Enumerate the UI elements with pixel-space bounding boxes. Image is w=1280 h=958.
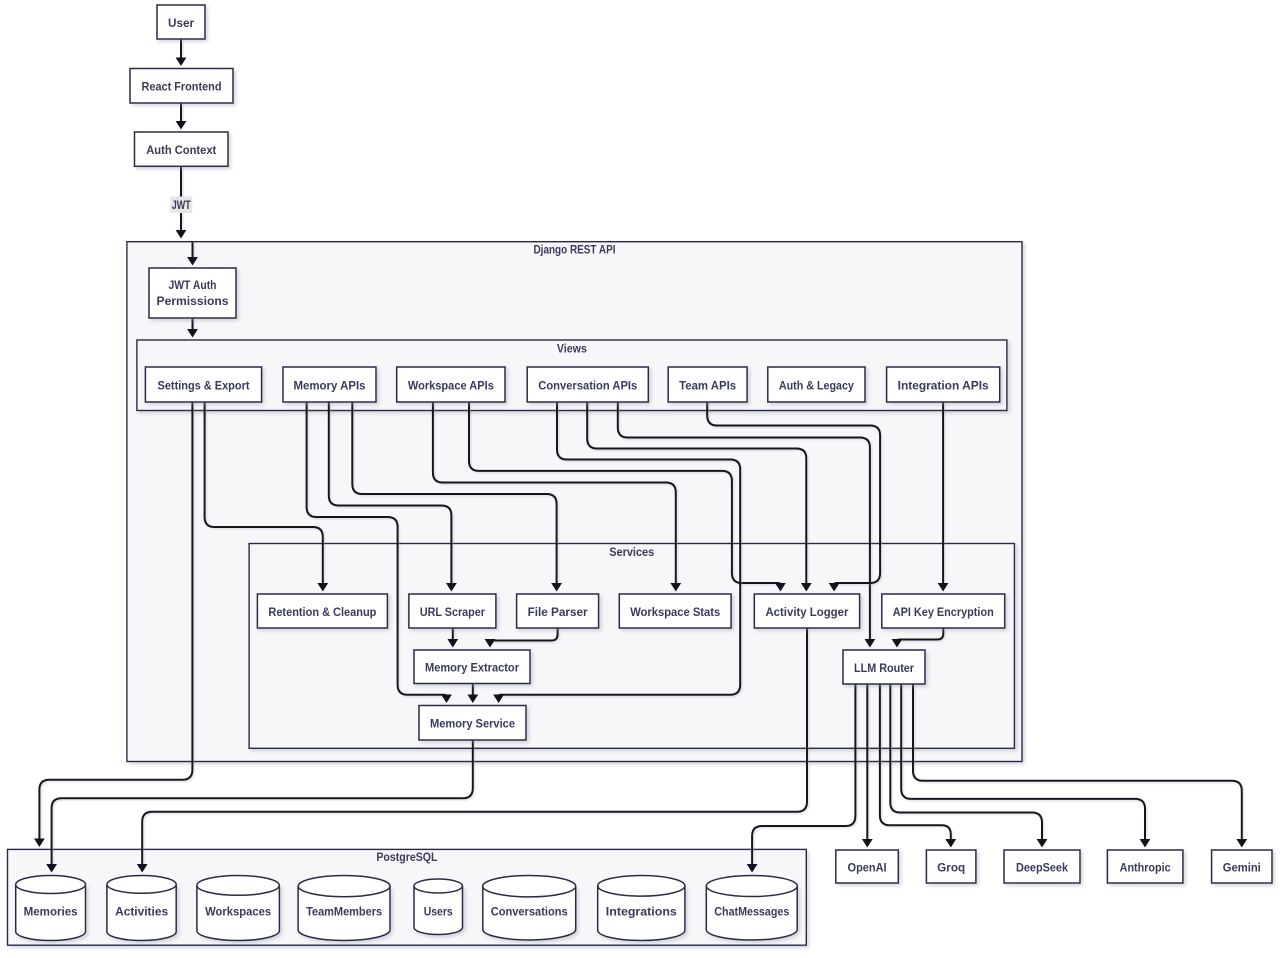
cluster Services <box>249 544 1014 749</box>
wire ReactFrontend-&gt;AuthContext <box>176 103 187 130</box>
svg-text:TeamMembers: TeamMembers <box>306 905 382 919</box>
svg-text:Retention & Cleanup: Retention & Cleanup <box>268 605 376 619</box>
database cylinder Workspaces <box>197 876 280 941</box>
node DeepSeek <box>1004 850 1080 883</box>
wire ConversationAPIs-&gt;MemoryService <box>493 402 740 703</box>
wire SettingsExport-&gt;PostgreSQL <box>34 402 192 847</box>
node Activity Logger <box>754 594 859 628</box>
svg-text:Anthropic: Anthropic <box>1120 860 1171 874</box>
node Auth Context <box>135 132 229 166</box>
wire WorkspaceAPIs-&gt;WorkspaceStats <box>433 402 681 592</box>
svg-text:Activities: Activities <box>115 905 168 919</box>
node API Key Encryption <box>882 594 1005 628</box>
svg-text:Conversations: Conversations <box>491 905 568 919</box>
svg-text:Django REST API: Django REST API <box>534 242 616 256</box>
wire IntegrationAPIs-&gt;APIKeyEncryption <box>938 402 949 592</box>
wire MemoryService-&gt;Memories <box>46 740 473 873</box>
wire URLScraper-&gt;MemoryExtractor <box>447 628 458 648</box>
wire APIKeyEncryption-&gt;LLMRouter <box>892 628 944 648</box>
wire LLMRouter-&gt;Groq <box>880 684 956 848</box>
svg-text:Memory APIs: Memory APIs <box>294 378 366 392</box>
wire LLMRouter-&gt;OpenAI <box>862 684 873 848</box>
node Memory Extractor <box>414 650 530 684</box>
node OpenAI <box>836 850 899 883</box>
node Team APIs <box>668 367 747 402</box>
svg-text:Workspace APIs: Workspace APIs <box>408 378 494 392</box>
node Gemini <box>1212 850 1272 883</box>
node JWT Auth Permissions <box>149 268 236 318</box>
wire LLMRouter-&gt;DeepSeek <box>890 684 1047 848</box>
node React Frontend <box>130 69 233 104</box>
node Integration APIs <box>887 367 1000 402</box>
svg-text:Gemini: Gemini <box>1223 860 1261 874</box>
wire LLMRouter-&gt;ChatMessages <box>747 684 856 873</box>
svg-text:Auth Context: Auth Context <box>146 143 216 157</box>
node JWT label <box>170 197 192 214</box>
database cylinder Memories <box>16 876 86 941</box>
database cylinder Integrations <box>598 876 685 941</box>
node File Parser <box>517 594 599 628</box>
wire FileParser-&gt;MemoryExtractor <box>485 628 558 648</box>
svg-text:DeepSeek: DeepSeek <box>1016 860 1068 874</box>
database cylinder ChatMessages <box>706 876 797 941</box>
node Auth &amp; Legacy <box>768 367 865 402</box>
node Workspace Stats <box>619 594 731 628</box>
node Settings &amp; Export <box>145 367 261 402</box>
cluster PostgreSQL <box>8 849 807 945</box>
svg-text:Workspace Stats: Workspace Stats <box>630 605 720 619</box>
svg-text:Conversation APIs: Conversation APIs <box>538 378 637 392</box>
wire TeamAPIs-&gt;ActivityLogger <box>707 402 880 592</box>
wire LLMRouter-&gt;Anthropic <box>901 684 1150 848</box>
node Anthropic <box>1107 850 1183 883</box>
svg-text:File Parser: File Parser <box>528 605 588 619</box>
svg-text:Workspaces: Workspaces <box>205 905 271 919</box>
svg-text:Permissions: Permissions <box>157 294 229 308</box>
node Retention &amp; Cleanup <box>257 594 387 628</box>
svg-text:Settings & Export: Settings & Export <box>158 378 250 392</box>
wire MemoryAPIs-&gt;URLScraper <box>329 402 457 592</box>
database cylinder Users <box>414 879 463 935</box>
svg-text:ChatMessages: ChatMessages <box>714 905 789 919</box>
wire SettingsExport-&gt;RetentionCleanup <box>205 402 329 592</box>
database cylinder TeamMembers <box>298 876 390 941</box>
node Conversation APIs <box>527 367 648 402</box>
svg-text:Integrations: Integrations <box>606 905 677 919</box>
node URL Scraper <box>409 594 496 628</box>
svg-text:Services: Services <box>609 545 654 559</box>
svg-text:PostgreSQL: PostgreSQL <box>376 850 437 864</box>
database cylinder Activities <box>107 876 176 941</box>
svg-text:LLM Router: LLM Router <box>854 661 914 675</box>
wire DjangoRESTAPI-&gt;JWTAuthPermissions <box>187 242 198 265</box>
wire User-&gt;ReactFrontend <box>176 40 187 67</box>
svg-text:Team APIs: Team APIs <box>679 378 736 392</box>
svg-text:Auth & Legacy: Auth & Legacy <box>779 378 854 392</box>
cluster Views <box>137 340 1007 411</box>
wire AuthContext-&gt;DjangoRESTAPI (JWT) <box>176 166 187 238</box>
node Groq <box>926 850 976 883</box>
node Memory Service <box>419 706 526 741</box>
svg-text:JWT Auth: JWT Auth <box>169 278 217 292</box>
svg-text:Memory Service: Memory Service <box>430 717 515 731</box>
svg-text:Views: Views <box>557 342 587 356</box>
wire WorkspaceAPIs-&gt;ActivityLogger <box>469 402 786 592</box>
wire MemoryAPIs-&gt;MemoryService <box>307 402 452 703</box>
svg-text:User: User <box>168 16 194 30</box>
svg-text:Memories: Memories <box>24 905 78 919</box>
svg-text:Activity Logger: Activity Logger <box>765 605 848 619</box>
wire ConversationAPIs-&gt;LLMRouter <box>618 402 876 648</box>
wire ActivityLogger-&gt;Activities <box>137 628 807 873</box>
wire MemoryExtractor-&gt;MemoryService <box>467 684 478 704</box>
node Memory APIs <box>283 367 376 402</box>
svg-text:Memory Extractor: Memory Extractor <box>425 661 519 675</box>
wire JWTAuthPermissions-&gt;Views <box>187 318 198 338</box>
svg-text:React Frontend: React Frontend <box>142 80 222 94</box>
wire LLMRouter-&gt;Gemini <box>913 684 1247 848</box>
svg-text:URL Scraper: URL Scraper <box>420 605 485 619</box>
svg-text:JWT: JWT <box>172 198 191 212</box>
database cylinder Conversations <box>483 876 576 941</box>
svg-text:Users: Users <box>424 905 453 919</box>
node LLM Router <box>843 650 925 684</box>
node Workspace APIs <box>397 367 505 402</box>
svg-text:Groq: Groq <box>937 860 965 874</box>
svg-text:Integration APIs: Integration APIs <box>898 378 989 392</box>
wire ConversationAPIs-&gt;ActivityLogger <box>587 402 812 592</box>
svg-text:OpenAI: OpenAI <box>848 860 887 874</box>
svg-text:API Key Encryption: API Key Encryption <box>893 605 994 619</box>
wire MemoryAPIs-&gt;FileParser <box>352 402 562 592</box>
node User <box>157 5 205 39</box>
cluster Django REST API <box>127 242 1022 762</box>
